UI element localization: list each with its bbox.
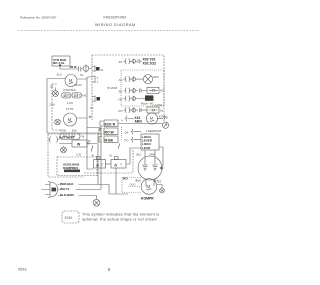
svg-text:NO 4 SL: NO 4 SL <box>53 61 65 65</box>
svg-text:DPC: DPC <box>153 75 159 79</box>
svg-text:SYM: SYM <box>65 216 73 220</box>
svg-text:W: W <box>92 154 95 158</box>
svg-text:OL: OL <box>109 154 113 158</box>
header dashed rule <box>18 30 199 32</box>
motor M1 (fresh food fan) <box>65 75 77 87</box>
wires relay to compressor <box>146 180 154 186</box>
svg-text:SL: SL <box>80 73 84 77</box>
wire motor1 right <box>78 77 93 79</box>
terminal strip labels row 0 <box>142 57 163 66</box>
wire B3 right to relay <box>159 147 163 167</box>
svg-text:3M W: 3M W <box>70 65 77 69</box>
wire OL right up to logic box <box>126 148 141 164</box>
svg-text:WH-TL: WH-TL <box>60 187 70 191</box>
overload box OL <box>109 154 126 169</box>
svg-text:B.VDM: B.VDM <box>108 86 118 90</box>
dotted optional box D4 <box>122 178 141 193</box>
svg-text:THERMOST: THERMOST <box>146 129 162 133</box>
svg-text:KOM BLK: KOM BLK <box>64 88 77 92</box>
connector S at right <box>162 116 168 129</box>
row 0: door switch circuit, label 3O <box>119 59 142 65</box>
svg-text:4 T: 4 T <box>90 106 94 110</box>
connector Q4 <box>125 129 142 135</box>
row 4: defrost thermostat, label PO <box>119 107 164 113</box>
svg-text:OLD: OLD <box>130 183 136 187</box>
left column connector+box ECK <box>100 120 118 127</box>
svg-text:PO: PO <box>125 139 130 143</box>
svg-text:3O: 3O <box>119 60 124 64</box>
svg-text:KOM: KOM <box>60 129 66 133</box>
svg-text:3O: 3O <box>119 89 124 93</box>
dotted stub <box>121 127 123 141</box>
svg-text:optional; the actual shape is: optional; the actual shape is not drawn <box>82 218 157 222</box>
wire motor2 right <box>77 116 92 118</box>
inner dotted enclosure B2 <box>121 70 164 106</box>
svg-text:T: T <box>101 163 103 167</box>
lamp L2 with 1/3 label <box>50 85 59 97</box>
svg-text:2.KK: 2.KK <box>49 103 55 107</box>
svg-text:PO: PO <box>119 109 124 113</box>
dashed box D2 top edge <box>48 133 110 135</box>
wire: left long vertical from motor1 <box>47 79 98 134</box>
svg-text:6: 6 <box>108 267 111 272</box>
svg-text:KT.TR: KT.TR <box>66 107 73 111</box>
supply wire 3 with label <box>58 193 97 200</box>
svg-text:05/16: 05/16 <box>18 268 27 272</box>
lamp L5 bottom <box>93 199 100 206</box>
svg-text:ECK R: ECK R <box>105 122 116 126</box>
capacitor symbol on timer wire <box>77 67 83 72</box>
svg-text:M: M <box>68 117 72 122</box>
svg-text:BLK: BLK <box>72 129 77 133</box>
terminal capsule 1 under M1 <box>62 93 72 99</box>
svg-text:3a: 3a <box>160 108 164 112</box>
dashed box D2 left/bottom <box>48 134 84 177</box>
svg-text:W: W <box>77 142 81 146</box>
connector on B1 left edge row 2 <box>92 76 99 85</box>
power plug P1 <box>42 182 58 198</box>
svg-text:ORN: ORN <box>149 153 155 157</box>
svg-text:T: T <box>120 163 122 167</box>
compressor motor M4 <box>141 179 157 195</box>
svg-text:RO W: RO W <box>105 130 115 134</box>
svg-text:~ CUML: ~ CUML <box>153 103 164 107</box>
main horizontal wire mid <box>119 123 163 125</box>
water valve coil box W1 <box>59 139 97 147</box>
svg-text:BLK-BRN: BLK-BRN <box>60 193 74 197</box>
defrost timer box TB1 <box>52 56 70 66</box>
control logic box B3 <box>141 134 159 150</box>
svg-text:RED-BLK: RED-BLK <box>60 182 74 186</box>
supply wire 1 with label <box>58 182 129 194</box>
svg-text:NC: NC <box>160 89 164 93</box>
inner dashed box D3 <box>57 157 97 176</box>
wire between thermostat and OL <box>106 163 112 165</box>
row 5: evaporator fan motor <box>121 115 146 123</box>
svg-text:M BK: M BK <box>105 138 114 142</box>
svg-text:M: M <box>150 116 153 121</box>
left column connector+box RO W <box>99 128 118 135</box>
svg-text:This symbol indicates that the: This symbol indicates that the element i… <box>82 213 159 217</box>
svg-text:Publication No. 5995T-807: Publication No. 5995T-807 <box>20 16 57 20</box>
svg-text:C: C <box>135 179 137 183</box>
svg-text:Q4: Q4 <box>125 131 129 135</box>
svg-text:W: W <box>82 135 85 139</box>
svg-text:W: W <box>101 68 104 72</box>
svg-text:AMO: AMO <box>135 119 143 123</box>
svg-text:KTW: KTW <box>159 114 166 118</box>
svg-text:FRS26ZPHW3: FRS26ZPHW3 <box>104 16 127 20</box>
squiggle fuse 2 <box>118 144 120 149</box>
svg-text:NO: NO <box>119 97 124 101</box>
lamp L4 below valve <box>61 146 67 153</box>
svg-text:PS: PS <box>87 142 91 146</box>
svg-text:KKCM: KKCM <box>74 83 82 87</box>
svg-text:1/3: 1/3 <box>50 85 54 89</box>
svg-text:KOMPR: KOMPR <box>141 197 154 201</box>
connector on B1 left edge row 1 <box>92 66 104 73</box>
svg-text:L.ID: L.ID <box>76 153 81 157</box>
start relay / capacitor circle RC <box>138 150 164 180</box>
svg-text:T: T <box>97 81 99 85</box>
svg-text:X02 2O2: X02 2O2 <box>143 62 156 66</box>
motor M2 (condenser fan) <box>64 113 77 126</box>
wire x98 vertical <box>97 133 99 185</box>
note: optional symbol box <box>62 211 79 223</box>
svg-text:M: M <box>69 78 73 83</box>
row 3: defrost heater, label NO <box>119 95 155 105</box>
muffler text blob <box>63 163 80 173</box>
svg-text:AO: AO <box>119 78 124 82</box>
supply wire 2 with label <box>58 126 102 191</box>
svg-text:WIRING DIAGRAM: WIRING DIAGRAM <box>95 22 136 27</box>
connector plug symbol on timer wire <box>83 65 93 73</box>
squiggle fuse <box>91 146 93 152</box>
svg-text:BLK: BLK <box>137 153 142 157</box>
wire from timer to right <box>60 66 77 69</box>
dashed segment right of D2 <box>84 150 133 173</box>
svg-text:1/3: 1/3 <box>158 180 162 184</box>
water valve row: connector <box>49 137 60 143</box>
terminal capsule 2 under M1 <box>72 93 87 99</box>
svg-text:4: 4 <box>121 118 123 122</box>
defrost thermostat box (delta T) <box>92 154 106 169</box>
motors dashed enclosure D5 <box>52 84 62 130</box>
svg-text:M: M <box>146 184 150 189</box>
lamp L3 in dashed corner <box>55 119 61 125</box>
wire compressor right to ground connector <box>157 180 165 193</box>
lamp L1 (circle with X) <box>143 75 159 84</box>
connector PO row lower <box>125 137 142 143</box>
svg-text:SLO: SLO <box>57 73 63 77</box>
main dashed enclosure B1 <box>92 55 164 122</box>
svg-text:1.KK: 1.KK <box>67 101 73 105</box>
connector on B1 left edge row 3 <box>92 96 100 103</box>
svg-text:KOMPRES: KOMPRES <box>63 166 78 170</box>
wire motor1 left <box>47 78 65 80</box>
svg-text:KO: KO <box>123 177 128 181</box>
terminal capsule under M2 <box>60 133 85 140</box>
wire OL bottom down <box>115 168 117 194</box>
svg-text:GAS W.DIS: GAS W.DIS <box>59 136 74 140</box>
evaporator fan motor M3 <box>146 113 165 124</box>
wire vertical x87 <box>87 79 100 169</box>
small box KO <box>123 176 130 181</box>
label OLD on dotted wire <box>128 183 141 187</box>
left column connector+box M BK <box>99 136 118 143</box>
row 1: freezer lamp, label AO <box>119 76 144 82</box>
svg-text:MC: MC <box>83 94 87 98</box>
row 2: switch with NC contact, label 3O <box>119 87 165 93</box>
svg-text:T: T <box>97 76 99 80</box>
svg-text:LEVR: LEVR <box>142 146 151 150</box>
